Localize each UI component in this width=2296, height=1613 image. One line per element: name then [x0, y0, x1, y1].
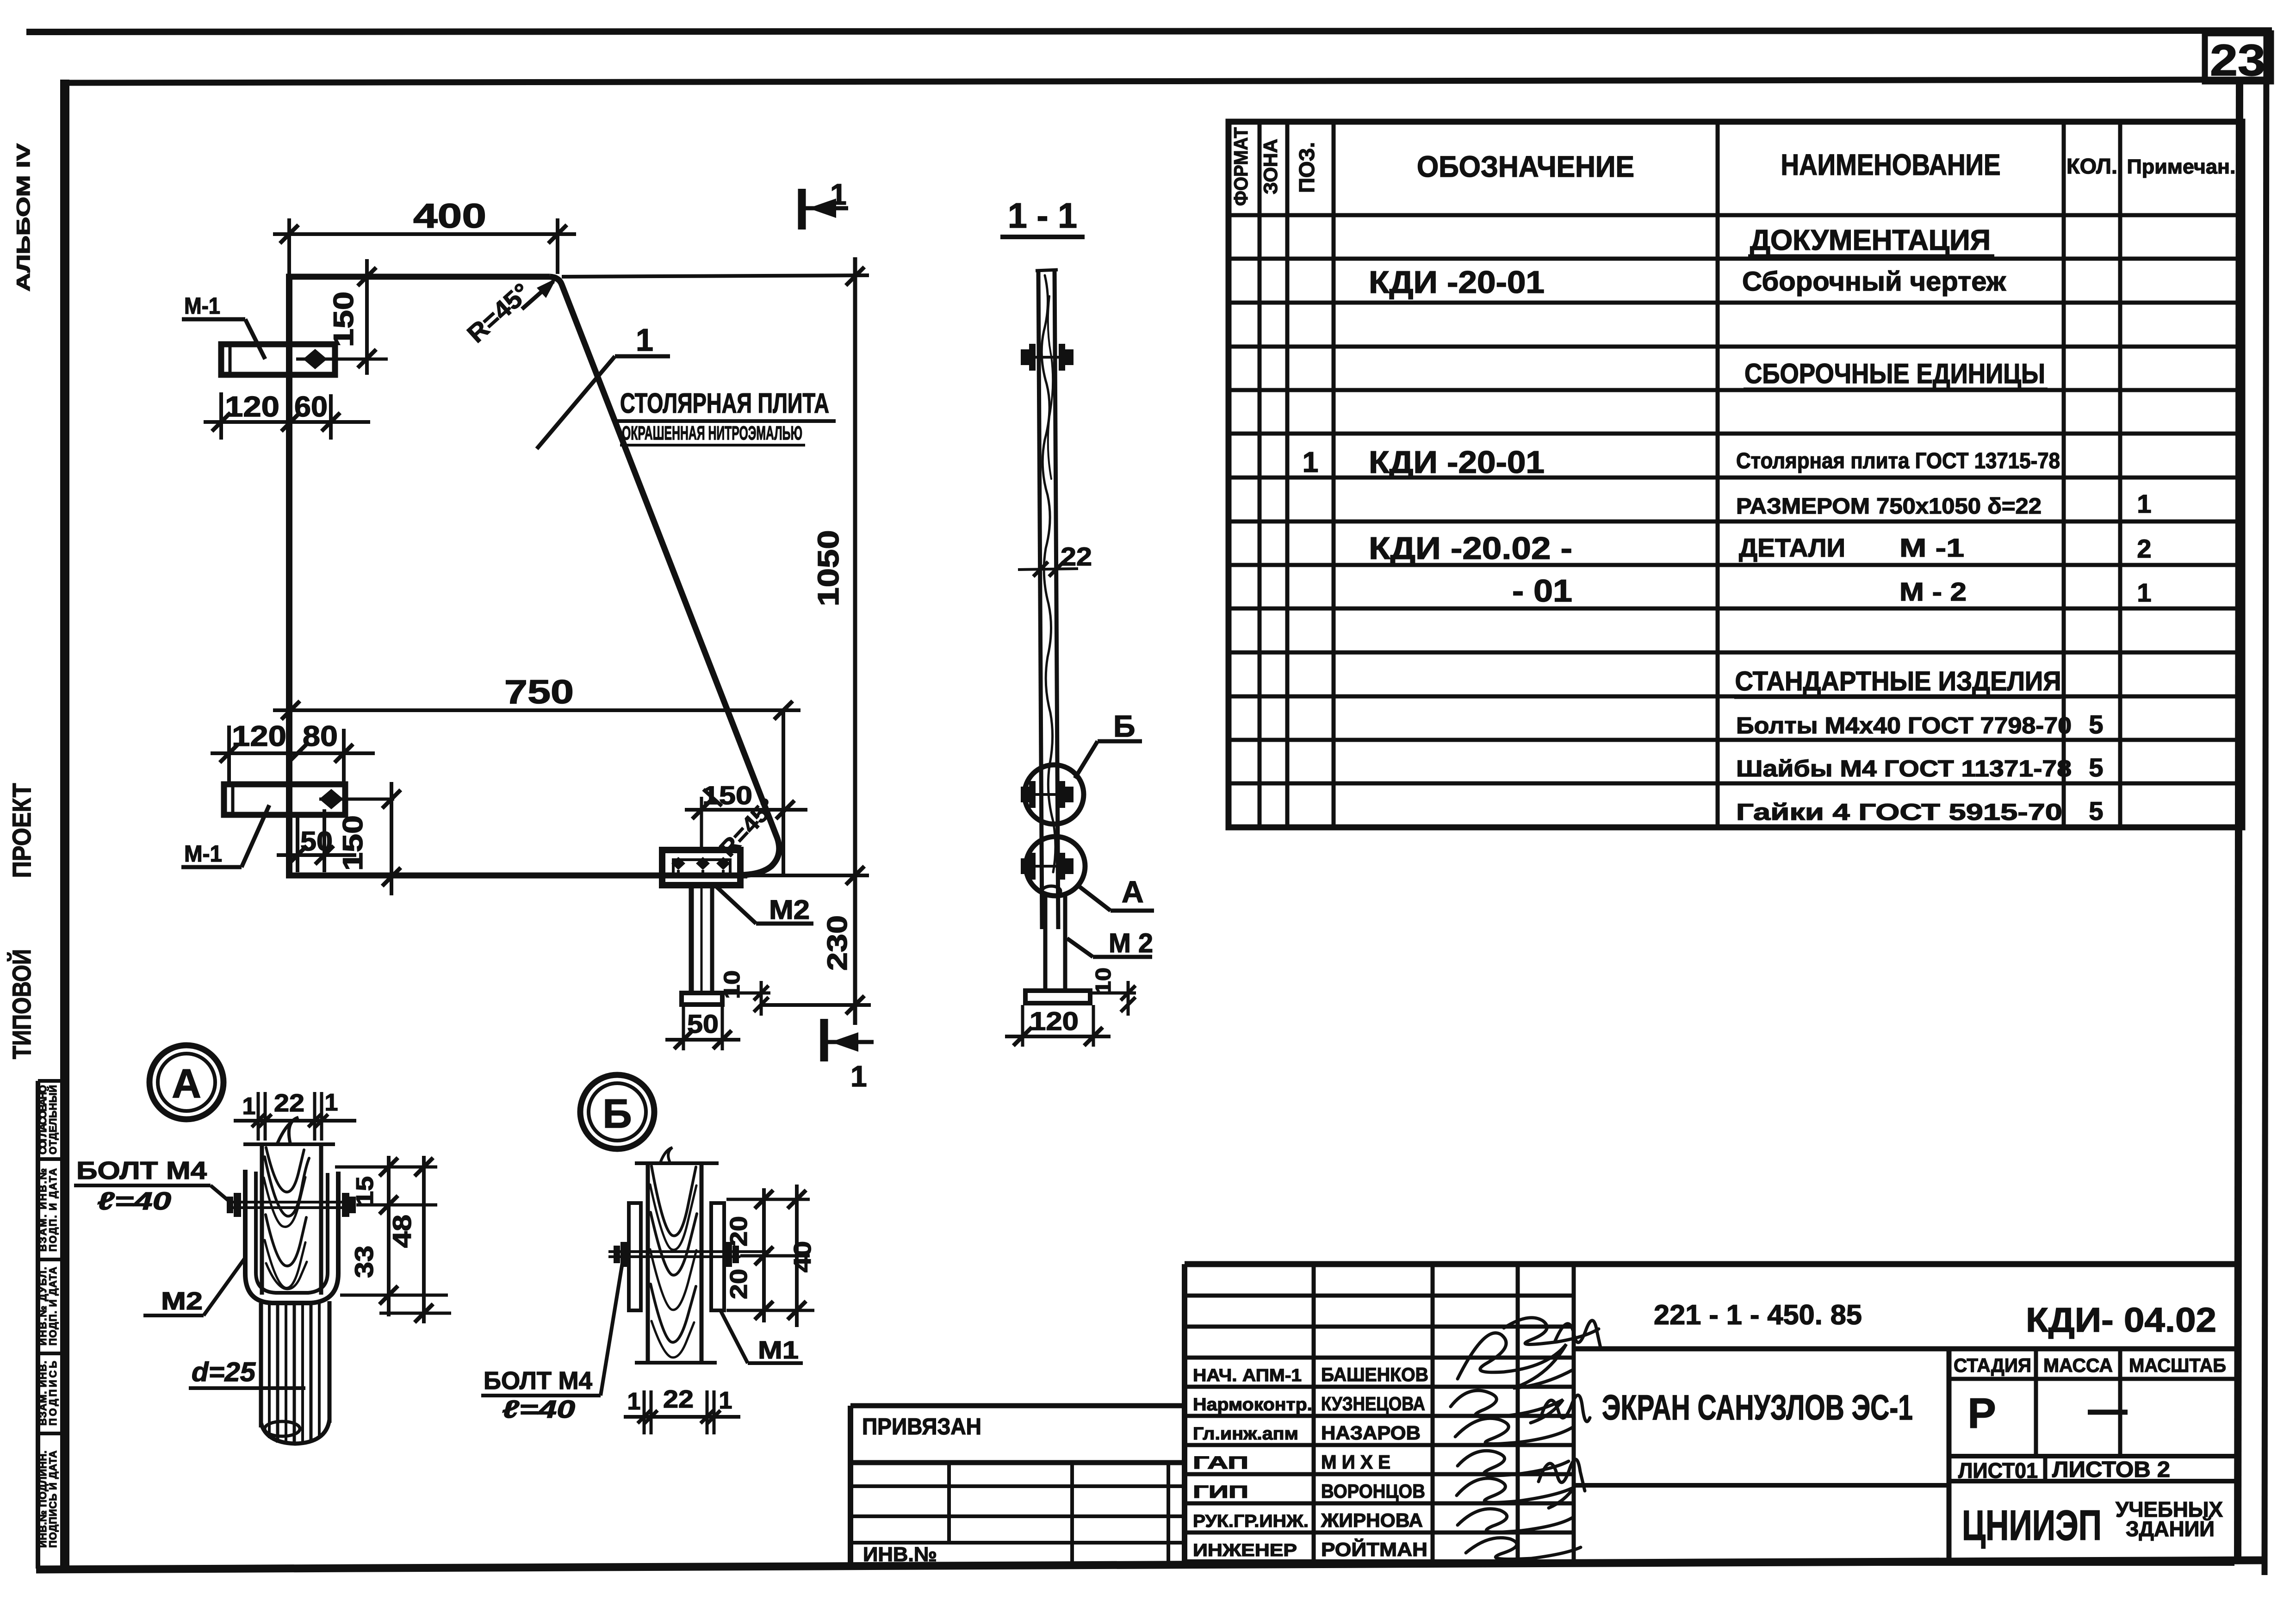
title block signatures — [1451, 1318, 1601, 1559]
svg-text:50: 50 — [687, 1009, 719, 1038]
page top rule — [26, 31, 2272, 32]
svg-text:15: 15 — [352, 1176, 379, 1206]
dimension 230 (right vertical) — [762, 875, 871, 1025]
panel outline: bottom edge — [286, 873, 747, 879]
svg-text:400: 400 — [413, 197, 486, 235]
svg-text:ЗДАНИЙ: ЗДАНИЙ — [2126, 1517, 2215, 1541]
dimension 150 (to post axis) — [685, 781, 807, 851]
svg-text:НАИМЕНОВАНИЕ: НАИМЕНОВАНИЕ — [1781, 148, 2001, 181]
svg-text:СТОЛЯРНАЯ ПЛИТА: СТОЛЯРНАЯ ПЛИТА — [620, 388, 829, 419]
svg-text:ЛИСТОВ 2: ЛИСТОВ 2 — [2052, 1458, 2170, 1482]
svg-text:ОБОЗНАЧЕНИЕ: ОБОЗНАЧЕНИЕ — [1417, 150, 1634, 183]
svg-text:ЗОНА: ЗОНА — [1260, 139, 1281, 194]
svg-text:М -1: М -1 — [1899, 533, 1964, 562]
svg-text:ПОДПИСЬ И ДАТА: ПОДПИСЬ И ДАТА — [47, 1451, 59, 1548]
svg-text:КДИ- 04.02: КДИ- 04.02 — [2026, 1301, 2216, 1339]
svg-text:ПРОЕКТ: ПРОЕКТ — [7, 783, 36, 878]
svg-text:МАСШТАБ: МАСШТАБ — [2129, 1354, 2226, 1376]
spec row: ДОКУМЕНТАЦИЯ — [1748, 224, 1994, 256]
svg-text:Б: Б — [1113, 709, 1135, 743]
label M1 with leader (detail Б) — [721, 1311, 803, 1364]
svg-text:А: А — [1122, 875, 1144, 909]
spec row: СБОРОЧНЫЕ ЕДИНИЦЫ — [1744, 358, 2048, 390]
svg-text:СБОРОЧНЫЕ ЕДИНИЦЫ: СБОРОЧНЫЕ ЕДИНИЦЫ — [1744, 358, 2045, 389]
dimensions 120 and 60 (upper M-1) — [204, 391, 370, 458]
svg-text:Гайки 4 ГОСТ 5915-70: Гайки 4 ГОСТ 5915-70 — [1736, 799, 2062, 825]
spec row: размером 750х1050 — [1736, 489, 2152, 519]
привязан table — [850, 1406, 1185, 1566]
detail M-1 strip (upper) — [221, 344, 335, 375]
svg-text:1: 1 — [325, 1089, 338, 1116]
svg-text:1: 1 — [242, 1093, 256, 1120]
svg-text:Б: Б — [602, 1091, 632, 1136]
label M-1 (upper) with leader — [182, 293, 265, 359]
detail A plank with wood grain — [243, 1117, 335, 1295]
left margin tiny stamp texts — [37, 1085, 59, 1548]
svg-text:ОКРАШЕННАЯ НИТРОЭМАЛЬЮ: ОКРАШЕННАЯ НИТРОЭМАЛЬЮ — [622, 422, 802, 444]
panel outline: left edge — [286, 274, 292, 878]
svg-text:М И Х Е: М И Х Е — [1321, 1451, 1390, 1473]
svg-text:М2: М2 — [769, 895, 810, 925]
label 1 with leader (position) — [537, 323, 670, 449]
round post d=25 (detail A) — [261, 1301, 329, 1445]
svg-text:22: 22 — [663, 1385, 694, 1413]
dimension 150 (lower left vertical) — [337, 782, 401, 895]
svg-text:КУЗНЕЦОВА: КУЗНЕЦОВА — [1321, 1393, 1425, 1414]
detail Б right dimensions 20/20/40 — [726, 1185, 816, 1327]
svg-text:Примечан.: Примечан. — [2127, 155, 2236, 178]
detail A marker circle — [149, 1045, 223, 1119]
inner frame right edge — [2238, 80, 2240, 1564]
svg-text:Шайбы М4 ГОСТ 11371-78: Шайбы М4 ГОСТ 11371-78 — [1736, 756, 2072, 782]
label А with leader (section) — [1078, 875, 1154, 911]
sheet number box "23" — [2205, 33, 2271, 85]
svg-text:ВОРОНЦОВ: ВОРОНЦОВ — [1321, 1480, 1425, 1502]
dimension 1050 (right vertical) — [562, 257, 869, 893]
dimensions 120 and 80 (lower M-1) — [211, 720, 375, 787]
svg-text:33: 33 — [349, 1246, 379, 1278]
svg-text:ПОДП. И ДАТА: ПОДП. И ДАТА — [47, 1168, 59, 1252]
spec table headers — [1230, 127, 2236, 206]
svg-text:ЦНИИЭП: ЦНИИЭП — [1962, 1502, 2102, 1549]
panel outline: top edge — [286, 274, 550, 280]
title block staff names — [1193, 1364, 1428, 1560]
title block: стадия масса масштаб — [1949, 1349, 2234, 1456]
svg-text:ℓ=40: ℓ=40 — [97, 1187, 171, 1215]
dimension 150 (upper left) — [328, 259, 376, 375]
label M-1 (lower) with leader — [181, 805, 269, 867]
plank thickness 22 mark — [1018, 542, 1092, 577]
svg-text:ТИПОВОЙ: ТИПОВОЙ — [7, 949, 36, 1059]
svg-text:ДЕТАЛИ: ДЕТАЛИ — [1739, 533, 1845, 562]
svg-text:10: 10 — [1091, 968, 1115, 994]
label d=25 (detail A) — [189, 1357, 305, 1388]
detail circle А on section — [1021, 837, 1085, 896]
label R=45 (top corner) — [462, 278, 557, 348]
spec row: поз.1 КДИ-20-01 столярная плита — [1303, 445, 2060, 480]
dimension 400 (top) — [273, 197, 576, 274]
svg-text:1: 1 — [627, 1388, 641, 1415]
svg-text:ПРИВЯЗАН: ПРИВЯЗАН — [862, 1414, 981, 1439]
svg-text:РАЗМЕРОМ 750х1050 δ=22: РАЗМЕРОМ 750х1050 δ=22 — [1736, 494, 2042, 519]
svg-text:М 2: М 2 — [1109, 928, 1153, 958]
svg-text:ДОКУМЕНТАЦИЯ: ДОКУМЕНТАЦИЯ — [1750, 224, 1991, 256]
detail Б plank with wood grain — [635, 1148, 719, 1363]
spec row: СТАНДАРТНЫЕ ИЗДЕЛИЯ — [1734, 666, 2061, 697]
panel outline: rounded top corner and diagonal edge — [550, 277, 779, 875]
svg-text:Гл.инж.апм: Гл.инж.апм — [1193, 1424, 1298, 1444]
dimension 120 (flange, section) — [1005, 1005, 1111, 1047]
dimension 10 (flange, section) — [1091, 968, 1136, 1016]
label R=45 (bottom corner) — [703, 789, 781, 862]
svg-text:М1: М1 — [758, 1336, 799, 1364]
svg-text:1: 1 — [850, 1060, 867, 1093]
svg-text:20: 20 — [726, 1269, 752, 1299]
left margin stamp box — [38, 1081, 65, 1569]
svg-text:ПОДП. И ДАТА: ПОДП. И ДАТА — [47, 1267, 59, 1346]
detail A U-bracket M2 — [245, 1170, 338, 1303]
spec row: шайбы — [1736, 753, 2104, 782]
svg-text:М-1: М-1 — [184, 841, 222, 867]
svg-text:ПОДПИСЬ: ПОДПИСЬ — [47, 1361, 59, 1426]
dimension 10 (flange thickness) — [720, 970, 770, 1016]
page bottom rule — [36, 1560, 2267, 1570]
bolts in M2 plate — [670, 857, 732, 875]
bolt mark on lower M-1 — [319, 789, 394, 809]
svg-text:ИНВ.№: ИНВ.№ — [863, 1543, 937, 1566]
svg-text:48: 48 — [387, 1215, 416, 1248]
svg-text:ℓ=40: ℓ=40 — [502, 1396, 575, 1423]
svg-text:МАССА: МАССА — [2043, 1354, 2113, 1376]
svg-text:80: 80 — [303, 720, 338, 752]
svg-text:ГАП: ГАП — [1193, 1453, 1248, 1473]
svg-text:1: 1 — [1303, 447, 1318, 478]
svg-text:1: 1 — [2137, 578, 2151, 607]
svg-text:120: 120 — [1030, 1006, 1079, 1036]
section 1-1 title — [1000, 196, 1085, 237]
svg-text:1 - 1: 1 - 1 — [1008, 196, 1077, 236]
post below plank (section) — [1042, 886, 1065, 993]
svg-text:22: 22 — [1061, 542, 1092, 571]
section mark 1 (bottom) — [824, 1019, 874, 1093]
M2 post flange — [682, 993, 722, 1005]
svg-text:ЛИСТ01: ЛИСТ01 — [1958, 1458, 2038, 1483]
svg-text:150: 150 — [328, 292, 359, 347]
svg-text:d=25: d=25 — [192, 1357, 256, 1387]
post flange (section) — [1025, 991, 1090, 1003]
dimension 50 (under flange) — [665, 1006, 740, 1050]
bolt mark on upper M-1 — [296, 349, 388, 369]
svg-text:120: 120 — [232, 720, 286, 752]
svg-text:БАШЕНКОВ: БАШЕНКОВ — [1321, 1364, 1428, 1385]
svg-text:5: 5 — [2089, 753, 2103, 782]
svg-text:АЛЬБОМ IV: АЛЬБОМ IV — [13, 143, 34, 292]
label БОЛТ М4 e=40 (detail Б) — [481, 1263, 622, 1423]
label M2 with leader (detail A) — [143, 1258, 245, 1315]
spec row: КДИ-20.02 детали М-1 — [1369, 531, 2152, 566]
svg-text:1: 1 — [830, 178, 847, 211]
svg-text:Столярная плита ГОСТ 13715-78: Столярная плита ГОСТ 13715-78 — [1736, 449, 2060, 473]
label СТОЛЯРНАЯ ПЛИТА — [615, 388, 836, 445]
svg-text:М - 2: М - 2 — [1899, 577, 1967, 606]
inner frame left edge — [60, 80, 69, 1569]
svg-text:5: 5 — [2089, 796, 2103, 825]
label M2 with leader (section) — [1067, 928, 1153, 958]
detail Б bottom dimension 1-22-1 — [624, 1385, 740, 1434]
top bolt through plank — [1021, 344, 1074, 371]
M2 post — [691, 885, 712, 993]
svg-text:НАЗАРОВ: НАЗАРОВ — [1321, 1422, 1421, 1444]
svg-text:РУК.ГР.ИНЖ.: РУК.ГР.ИНЖ. — [1193, 1512, 1309, 1531]
svg-text:50: 50 — [300, 826, 333, 856]
svg-text:КДИ -20-01: КДИ -20-01 — [1369, 445, 1545, 480]
svg-text:Болты М4х40 ГОСТ 7798-70: Болты М4х40 ГОСТ 7798-70 — [1736, 713, 2072, 738]
svg-text:22: 22 — [274, 1089, 304, 1117]
svg-text:1050: 1050 — [812, 530, 845, 607]
svg-text:ИНЖЕНЕР: ИНЖЕНЕР — [1193, 1541, 1297, 1560]
svg-text:БОЛТ М4: БОЛТ М4 — [484, 1367, 592, 1395]
svg-text:2: 2 — [2137, 534, 2151, 563]
specification table grid — [1229, 122, 2242, 827]
spec row: КДИ-20-01 сборочный чертеж — [1369, 265, 2006, 300]
svg-text:120: 120 — [225, 391, 279, 423]
svg-text:БОЛТ М4: БОЛТ М4 — [76, 1157, 207, 1185]
svg-text:10: 10 — [720, 970, 745, 999]
svg-text:ПОЗ.: ПОЗ. — [1295, 142, 1319, 193]
svg-text:150: 150 — [337, 815, 368, 871]
svg-text:КОЛ.: КОЛ. — [2066, 154, 2117, 178]
svg-text:КДИ -20-01: КДИ -20-01 — [1369, 265, 1545, 300]
detail Б marker circle — [580, 1075, 654, 1149]
svg-text:Сборочный чертеж: Сборочный чертеж — [1742, 267, 2006, 297]
svg-text:М-1: М-1 — [184, 293, 220, 319]
svg-text:1: 1 — [636, 323, 653, 358]
title block: staff table grid — [1185, 1264, 2234, 1563]
svg-text:РОЙТМАН: РОЙТМАН — [1321, 1538, 1427, 1560]
svg-text:1: 1 — [719, 1387, 732, 1414]
svg-text:КДИ -20.02 -: КДИ -20.02 - — [1369, 531, 1572, 566]
svg-text:1: 1 — [2137, 489, 2151, 518]
label M2 with leader — [716, 887, 813, 925]
detail Б bolt — [608, 1242, 770, 1267]
dimension 750 — [273, 674, 800, 876]
svg-text:5: 5 — [2089, 710, 2103, 739]
svg-text:221 - 1 - 450. 85: 221 - 1 - 450. 85 — [1654, 1299, 1862, 1330]
svg-text:ФОРМАТ: ФОРМАТ — [1230, 127, 1252, 206]
svg-text:ЭКРАН САНУЗЛОВ ЭС-1: ЭКРАН САНУЗЛОВ ЭС-1 — [1602, 1388, 1913, 1427]
title block: лист строка — [1949, 1456, 2234, 1483]
dimension 50 (lower M-1) — [277, 809, 356, 872]
bracket M2 plate (bottom of panel) — [662, 850, 740, 885]
svg-text:А: А — [172, 1061, 201, 1106]
title block: upper code band — [1574, 1299, 2234, 1349]
svg-text:230: 230 — [822, 915, 853, 971]
detail Б strips M1 — [629, 1203, 724, 1310]
svg-text:40: 40 — [789, 1241, 816, 1272]
svg-text:ЖИРНОВА: ЖИРНОВА — [1321, 1509, 1423, 1531]
section mark 1 (top) — [802, 178, 848, 230]
svg-text:Р: Р — [1967, 1390, 1996, 1437]
svg-text:- 01: - 01 — [1512, 573, 1572, 608]
label БОЛТ М4 e=40 (detail A) — [74, 1157, 231, 1215]
plank (edge view) — [1036, 270, 1058, 929]
page outer right rule — [2265, 32, 2266, 1575]
svg-text:СТАНДАРТНЫЕ ИЗДЕЛИЯ: СТАНДАРТНЫЕ ИЗДЕЛИЯ — [1735, 666, 2061, 696]
svg-text:СТАДИЯ: СТАДИЯ — [1954, 1354, 2031, 1376]
inner frame top edge — [60, 80, 2272, 83]
detail A bolt — [227, 1193, 356, 1217]
svg-text:НАЧ. АПМ-1: НАЧ. АПМ-1 — [1193, 1366, 1302, 1385]
detail A right dimensions 15/33/48 — [335, 1156, 451, 1323]
title block: ЦНИИЭП учебных зданий — [1962, 1497, 2223, 1549]
svg-text:ОТДЕЛЬНЫЙ: ОТДЕЛЬНЫЙ — [47, 1085, 59, 1154]
svg-text:Нармоконтр.: Нармоконтр. — [1193, 1395, 1312, 1414]
label Б with leader (section) — [1075, 709, 1142, 778]
spec row: болты — [1736, 710, 2104, 739]
svg-text:750: 750 — [504, 674, 574, 711]
svg-text:ГИП: ГИП — [1193, 1483, 1248, 1502]
spec row: -01 М-2 — [1512, 573, 2152, 608]
detail M-1 strip (lower) — [224, 784, 345, 815]
detail A top dimension 1-22-1 — [234, 1089, 356, 1141]
spec row: гайки — [1736, 796, 2104, 825]
title block: drawing name ЭКРАН САНУЗЛОВ ЭС-1 — [1574, 1349, 1949, 1563]
detail circle Б on section — [1021, 765, 1084, 824]
svg-text:60: 60 — [294, 391, 328, 423]
svg-text:М2: М2 — [161, 1287, 203, 1315]
svg-text:20: 20 — [726, 1216, 752, 1247]
